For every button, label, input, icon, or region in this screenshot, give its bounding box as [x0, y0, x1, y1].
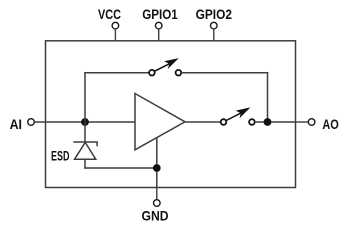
switch S2 arrowhead	[236, 107, 251, 118]
node output junction dot	[264, 118, 272, 126]
switch S2 lever	[226, 113, 241, 121]
pin GPIO1 terminal circle	[155, 22, 162, 29]
diode D1 ESD triangle	[75, 142, 96, 159]
pin AI terminal circle	[28, 119, 35, 126]
switch S1 arrowhead	[164, 58, 179, 69]
wire amplifier output to switch S2	[185, 121, 221, 123]
pin AO terminal circle	[308, 119, 315, 126]
switch S2 left contact	[221, 119, 227, 125]
wire bypass branch vertical (junction up to top rail, down to ESD diode)	[84, 72, 86, 142]
wire AI input to amplifier	[34, 121, 135, 123]
wire switch S2 to output	[255, 121, 296, 123]
wire GPIO1 stub	[158, 29, 160, 41]
svg-text:ESD: ESD	[51, 149, 70, 164]
wire bypass right drop	[267, 72, 269, 122]
IC block outline	[46, 41, 296, 188]
node AI junction dot	[81, 118, 89, 126]
wire amplifier ground stub down to GND	[156, 138, 158, 188]
svg-text:VCC: VCC	[98, 7, 121, 22]
node ground junction dot	[153, 164, 161, 172]
wire ESD to ground rail	[84, 167, 157, 169]
switch S1 left contact	[149, 70, 155, 76]
svg-text:GND: GND	[142, 209, 169, 224]
pin GPIO2 terminal circle	[211, 22, 218, 29]
svg-text:AI: AI	[10, 117, 22, 132]
wire GND stub below box	[156, 188, 158, 200]
wire ESD anode drop	[84, 159, 86, 168]
svg-text:GPIO2: GPIO2	[196, 7, 232, 22]
svg-text:AO: AO	[322, 117, 339, 132]
wire GPIO2 stub	[213, 29, 215, 41]
switch S1 right contact	[176, 70, 182, 76]
pin VCC terminal circle	[112, 22, 119, 29]
svg-text:GPIO1: GPIO1	[142, 7, 178, 22]
wire box edge to AO terminal	[296, 121, 309, 123]
switch S2 right contact	[249, 119, 255, 125]
op-amp buffer triangle	[135, 94, 185, 150]
diode D1 ESD cathode bar	[73, 142, 97, 146]
pin GND terminal circle	[154, 200, 161, 207]
wire switch S1 to right drop	[181, 72, 268, 74]
wire VCC stub	[114, 29, 116, 41]
wire top rail to switch S1	[84, 72, 149, 74]
switch S1 lever	[155, 63, 170, 71]
